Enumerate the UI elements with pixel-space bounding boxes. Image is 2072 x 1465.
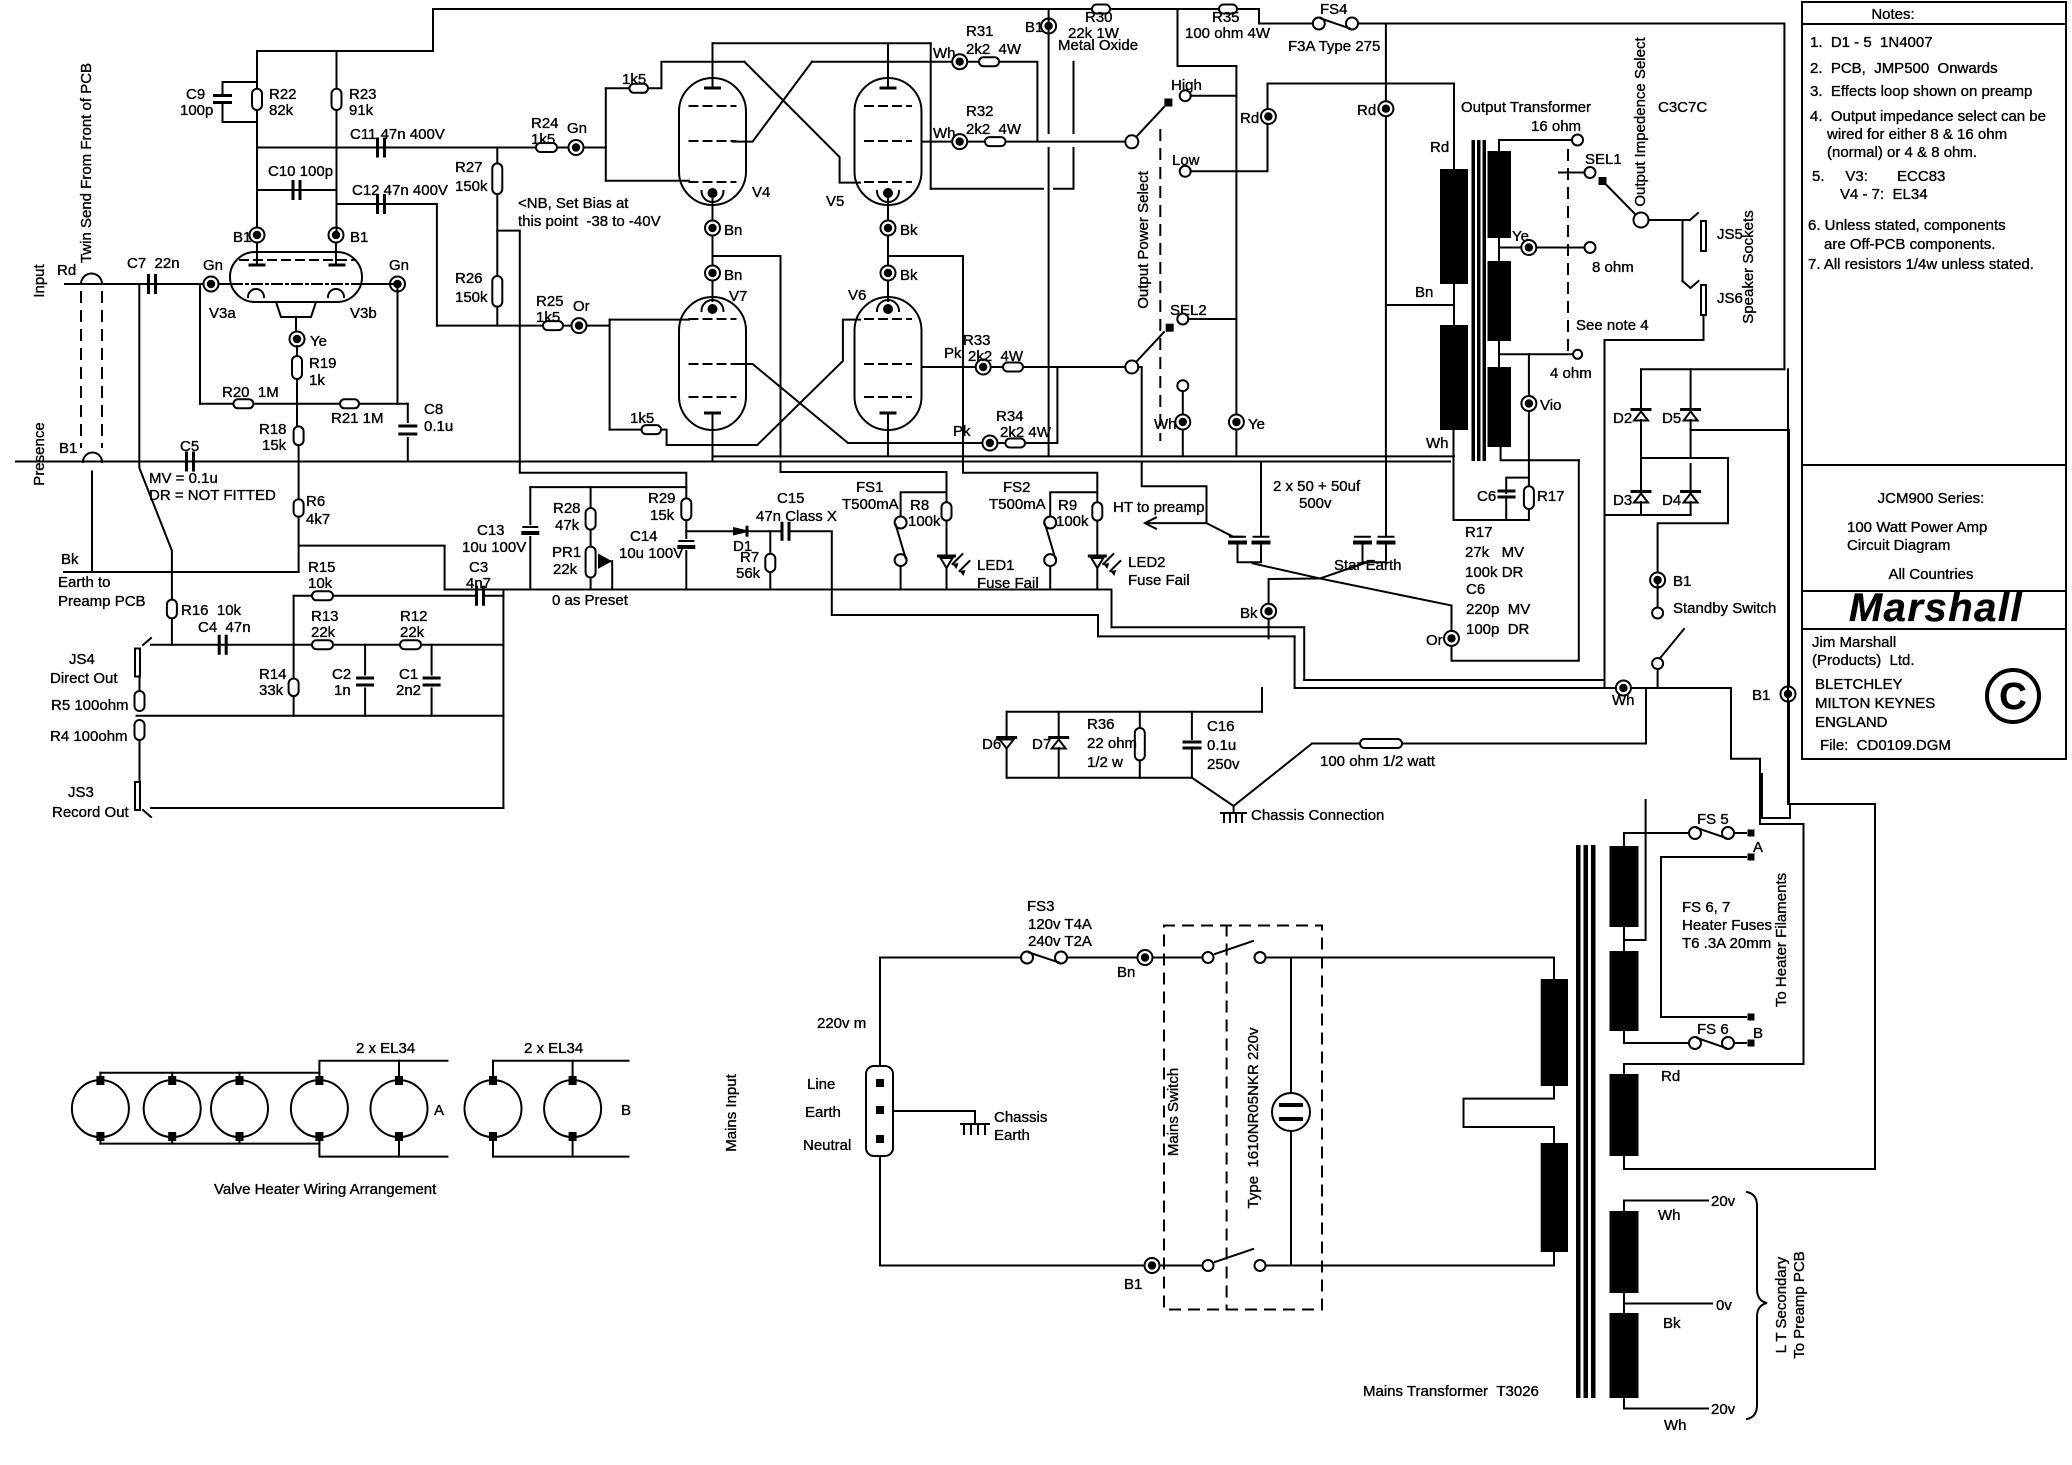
MT secondary heater B [1610,951,1639,1031]
svg-text:C6: C6 [1477,488,1496,505]
MT secondary heater A [1610,846,1639,927]
svg-text:To Preamp PCB: To Preamp PCB [1791,1251,1808,1359]
svg-text:R9: R9 [1058,497,1077,514]
tube V7 (EL34) [679,297,746,430]
wire R36 box bottom [1008,777,1192,779]
wire unused contact down [1182,391,1184,456]
wire lamp top [1290,958,1292,1094]
svg-text:V4: V4 [752,184,770,201]
resistor R7 56k [765,554,775,572]
wire R31 row left [812,61,979,63]
svg-text:V3a: V3a [209,305,236,322]
capacitor C16 0.1u [1184,742,1200,748]
svg-text:8 ohm: 8 ohm [1592,259,1634,276]
svg-text:Wh: Wh [933,125,956,142]
heater bus B bottom [493,1156,629,1158]
resistor R24 1k5 [536,143,557,152]
svg-text:Line: Line [807,1076,835,1093]
title sep 2 [1802,628,2066,630]
wire B1 to standby [1657,580,1659,608]
wire cap pair2 bottoms [1363,545,1387,563]
wire R28-PR1 [590,530,592,547]
wire Low contact to Rd col [1191,84,1454,172]
wire B1 vertical [1048,9,1050,456]
wire V7 g2 stub + diagonal D [733,364,848,443]
mains connector [866,1066,893,1156]
wire C12 down to R25 [436,204,438,326]
svg-text:D6: D6 [982,736,1001,753]
svg-text:2 x 50 + 50uf: 2 x 50 + 50uf [1273,478,1361,495]
node Bk upper [881,221,896,236]
svg-text:JS4: JS4 [69,651,95,668]
svg-text:B1: B1 [1673,573,1691,590]
capacitor C5 [187,453,194,470]
svg-text:Output Transformer: Output Transformer [1461,99,1591,116]
wire FS5 to terminal [1734,832,1746,834]
svg-text:are Off-PCB components.: are Off-PCB components. [1824,236,1995,253]
svg-text:C2: C2 [332,666,351,683]
resistor R29 15k [681,498,691,520]
node Gn V3b [390,277,405,292]
fuse FS4 [1313,18,1325,30]
wire D4 bottom [1690,502,1692,515]
svg-text:Bn: Bn [724,267,742,284]
fuse FS5 [1689,827,1701,839]
svg-text:JS6: JS6 [1717,290,1743,307]
switch common SEL2 [1125,361,1138,374]
copyright symbol [1987,670,2039,722]
wire R29 to C14 [685,520,687,538]
wire R26 bottom [496,307,498,326]
svg-text:R30: R30 [1085,9,1113,26]
svg-text:1k5: 1k5 [536,309,560,326]
node B1 right [329,228,344,243]
wire C4 row [151,644,312,646]
mains pin line [876,1079,884,1087]
wire D6 col bottom [1006,748,1008,778]
svg-text:V4 - 7: EL34: V4 - 7: EL34 [1840,186,1928,203]
svg-text:FS 6: FS 6 [1697,1021,1729,1038]
wire standby to bus [1657,669,1659,688]
svg-text:FS1: FS1 [856,479,884,496]
terminal A1 [1748,830,1755,837]
svg-text:Metal Oxide: Metal Oxide [1058,37,1138,54]
svg-text:R12: R12 [400,608,428,625]
svg-text:C12 47n 400V: C12 47n 400V [352,182,448,199]
svg-text:4. Output impedance select ca: 4. Output impedance select can be [1810,108,2046,125]
wire R23 top lead [336,51,338,89]
svg-text:R32: R32 [966,103,994,120]
MT secondary LT 2 [1610,1313,1639,1398]
svg-text:Gn: Gn [203,257,223,274]
wire R34 right lead up [1025,367,1057,443]
wire 16 ohm tap [1499,140,1572,151]
svg-text:C7 22n: C7 22n [127,255,180,272]
svg-text:C8: C8 [424,401,443,418]
svg-text:R28: R28 [553,500,581,517]
terminal B2 [1748,1040,1755,1047]
svg-text:R22: R22 [269,86,297,103]
wire record out row [151,807,503,809]
wire C15 right down [789,531,832,589]
terminal B1 [1748,1014,1755,1021]
wire C8 bottom [407,438,409,462]
wire cathode branch left pair [713,256,781,456]
wire V3b grid down [397,284,399,404]
svg-text:100 ohm 1/2 watt: 100 ohm 1/2 watt [1320,753,1436,770]
wire R6 bottom to bias bus [299,517,445,590]
resistor 1k5 V7 screen [642,425,662,434]
svg-text:B1: B1 [59,440,77,457]
heater bus B top [493,1060,629,1062]
wire C13 bottom [529,537,531,590]
svg-text:MILTON KEYNES: MILTON KEYNES [1815,695,1935,712]
svg-text:100p DR: 100p DR [1466,621,1530,638]
svg-text:FS3: FS3 [1027,898,1055,915]
node Bn upper [705,221,720,236]
wire cathode to R19 [296,346,298,356]
resistor R23 91k [332,89,342,110]
wire C6R17 bottom rail [1454,519,1529,521]
wire R5 row [137,715,504,717]
svg-text:FS 5: FS 5 [1697,811,1729,828]
OT secondary winding 3 [1488,367,1512,447]
terminal 4 ohm [1573,350,1582,359]
fuse FS2 [1044,517,1056,529]
mains switch dashed box [1164,926,1322,1310]
node B1 left [250,228,265,243]
svg-text:D7: D7 [1032,736,1051,753]
wire R31 right to R32 row [999,62,1037,141]
svg-text:R13: R13 [311,608,339,625]
svg-text:FS2: FS2 [1003,479,1031,496]
svg-text:Bk: Bk [1240,605,1258,622]
svg-text:A: A [1753,839,1763,856]
svg-text:Circuit Diagram: Circuit Diagram [1847,537,1950,554]
wire MT primary link zigzag [1464,1086,1555,1143]
switch arm head 1 [1164,99,1172,107]
svg-text:Ye: Ye [310,333,327,350]
capacitor C15 47n [782,523,789,539]
svg-text:2k2 4W: 2k2 4W [968,348,1024,365]
input jack J1 [81,274,102,285]
tube V3 (ECC83) [230,252,362,302]
wire main bus step down [1111,590,1113,628]
presence jack [83,453,102,463]
svg-text:R8: R8 [910,497,929,514]
svg-text:L T Secondary: L T Secondary [1773,1256,1790,1353]
wire A2 to B1 link [1660,857,1662,1017]
svg-text:20v: 20v [1711,1193,1736,1210]
svg-text:Star Earth: Star Earth [1334,557,1402,574]
wire input [65,283,230,285]
dashed line output power select [1159,130,1161,440]
wire V3b anode lead [335,235,337,265]
node Or [1444,631,1459,646]
wire heater A top [1624,833,1689,846]
svg-text:4 ohm: 4 ohm [1550,365,1592,382]
wire mains bottom [879,1156,881,1266]
resistor R13 22k [312,640,333,649]
resistor R36 22ohm [1135,728,1145,760]
svg-text:F3A Type 275: F3A Type 275 [1288,38,1380,55]
capacitor C6 220p [1499,490,1514,493]
wire 1k5b row [610,429,642,431]
wire R9 to LED2 [1096,521,1098,554]
wire cap pair 1 top [1207,523,1243,537]
svg-text:10u 100V: 10u 100V [619,545,683,562]
svg-text:Fuse Fail: Fuse Fail [1128,572,1190,589]
diode D4 [1682,490,1700,493]
tube V5 (EL34) [855,78,922,205]
capacitor C7 [149,276,156,293]
svg-text:Input: Input [31,263,48,297]
wire R24 to Gn [557,147,606,149]
wire R18 to R6 [298,445,300,499]
wire JS loop right leg [502,590,504,809]
resistor R26 150k [492,276,502,307]
wire R4 to JS3 [139,740,141,782]
wire R22 bottom lead [256,110,258,148]
notes box frame [1802,2,2066,465]
svg-text:Pk: Pk [953,423,971,440]
wire 1k5b right [661,430,757,445]
svg-text:C5: C5 [180,438,199,455]
svg-text:Ye: Ye [1248,416,1265,433]
wire 1k5a row [606,87,630,89]
svg-text:1k5: 1k5 [630,410,654,427]
svg-text:Wh: Wh [1426,435,1449,452]
wire top bus corner [432,9,434,51]
OT primary winding lower [1440,325,1468,430]
svg-text:240v T2A: 240v T2A [1028,933,1092,950]
node Pk R33 [976,360,991,375]
wire R12 right [421,644,503,646]
capacitor C4 47n [219,636,226,653]
wire presence jack sleeve [91,472,93,573]
switch arm SEL1 [1606,185,1635,215]
valve heater socket 1 [72,1080,129,1137]
wire 4 ohm tap [1499,341,1572,367]
wire screen loop [931,62,1074,189]
capacitor C8 0.1u [400,426,416,434]
bus main lower [445,589,1112,591]
node Wh R31 [952,54,967,69]
wire D6 col top [1006,712,1008,737]
wire SEL1 stub [1559,172,1585,174]
mains switch bottom blade [1215,1249,1253,1262]
svg-text:82k: 82k [269,102,294,119]
svg-text:T500mA: T500mA [989,496,1046,513]
node Ye rail [1229,415,1244,430]
svg-text:V3b: V3b [350,305,377,322]
svg-text:220v m: 220v m [817,1015,866,1032]
svg-text:C1: C1 [399,666,418,683]
svg-text:1k: 1k [309,372,325,389]
svg-text:Jim Marshall: Jim Marshall [1812,634,1896,651]
svg-text:Pk: Pk [944,345,962,362]
wire V6 anode lead [887,413,889,456]
wire C10 row [257,189,337,191]
contact SEL2 [1177,314,1188,325]
capacitor filter 1a [1230,536,1245,538]
wire mains top row [880,957,1021,959]
svg-text:File: CD0109.DGM: File: CD0109.DGM [1820,737,1951,754]
resistor R18 15k [294,426,304,445]
resistor 1k5 V4 screen [629,84,648,93]
svg-text:150k: 150k [455,289,488,306]
svg-text:C3C7C: C3C7C [1658,99,1707,116]
svg-text:C13: C13 [477,522,505,539]
svg-text:C14: C14 [630,528,658,545]
capacitor C2 1n [358,678,373,685]
heater stub top 2 [171,1073,173,1076]
svg-text:SEL1: SEL1 [1585,151,1622,168]
wire R15 row left leg [293,596,295,645]
svg-text:Preamp PCB: Preamp PCB [58,593,146,610]
wire MT primary top lead [1553,958,1555,980]
svg-text:Or: Or [573,298,590,315]
svg-text:Neutral: Neutral [803,1137,851,1154]
preset PR1 22k [586,547,596,578]
resistor R4 100ohm [135,720,145,740]
svg-text:(Products) Ltd.: (Products) Ltd. [1812,652,1915,669]
svg-text:R4 100ohm: R4 100ohm [50,728,128,745]
wire V5 cathode down [887,198,889,301]
dashed line output impedance select [1567,150,1569,352]
MT secondary LT 1 [1610,1211,1639,1293]
heater stub bottom 3 [239,1141,241,1144]
svg-text:10u 100V: 10u 100V [462,539,526,556]
svg-text:100 ohm 4W: 100 ohm 4W [1185,25,1271,42]
heater stub B bottom [492,1141,494,1157]
wire D4 top [1690,464,1692,490]
svg-text:V6: V6 [848,287,866,304]
valve heater socket 2 [144,1080,201,1137]
diode D7 [1050,736,1068,739]
svg-text:Record Out: Record Out [52,804,130,821]
wire C2 top [364,645,366,675]
valve heater socket 7 [544,1080,601,1137]
svg-text:1k5: 1k5 [531,131,555,148]
svg-text:3. Effects loop shown on prea: 3. Effects loop shown on preamp [1810,83,2032,100]
svg-text:Vio: Vio [1540,397,1561,414]
svg-text:R6: R6 [306,493,325,510]
svg-text:T500mA: T500mA [842,496,899,513]
svg-text:C4 47n: C4 47n [198,619,251,636]
jack JS3 record out [135,782,140,810]
MT core [1576,845,1581,1398]
wire 8 ohm tap [1499,238,1585,261]
heater bus A bottom [100,1143,319,1145]
wire right loop vertical [1783,24,1785,370]
LED2 fuse fail [1089,555,1105,558]
bus3a earth [1112,626,1305,628]
svg-text:2k2 4W: 2k2 4W [966,121,1022,138]
wire A2 row [1661,856,1746,858]
svg-text:Direct Out: Direct Out [50,670,118,687]
svg-text:MV = 0.1u: MV = 0.1u [149,470,218,487]
wire PR1 bottom [590,578,592,590]
chassis connection earth symbol [1221,813,1246,822]
svg-text:Wh: Wh [1154,416,1177,433]
svg-text:V5: V5 [826,193,844,210]
terminal A2 [1748,854,1755,861]
wire FS1 tap [901,492,947,516]
mains switch dashed divider [1226,926,1228,1310]
svg-text:Rd: Rd [1240,110,1259,127]
resistor R8 100k [942,502,952,520]
brace LT secondary [1747,1192,1767,1419]
node Gn V3a grid [204,277,219,292]
OT core [1472,140,1476,461]
wire R8 to LED1 [946,521,948,554]
svg-text:R21 1M: R21 1M [331,410,384,427]
svg-text:R31: R31 [966,23,994,40]
fuse FS3 [1021,952,1033,964]
wire D2 bottom [1640,420,1642,458]
svg-text:DR = NOT FITTED: DR = NOT FITTED [149,487,276,504]
wire V4 g1 stub [606,180,689,182]
svg-text:Presence: Presence [31,422,48,485]
svg-text:FS 6, 7: FS 6, 7 [1682,899,1730,916]
svg-text:PR1: PR1 [552,544,581,561]
svg-text:2k2 4W: 2k2 4W [966,41,1022,58]
svg-text:To Heater Filaments: To Heater Filaments [1773,873,1790,1007]
svg-text:Bk: Bk [61,551,79,568]
svg-text:See note 4: See note 4 [1576,317,1649,334]
wire C12 row [337,203,437,205]
capacitor C3 4n7 [477,587,484,604]
heater stub bottom 4 [318,1141,320,1144]
svg-text:D4: D4 [1662,492,1681,509]
svg-text:B: B [621,1102,631,1119]
wire R7 bottom [769,572,771,590]
wire twin send down [139,284,172,600]
svg-text:100k DR: 100k DR [1465,564,1524,581]
svg-text:0v: 0v [1716,1297,1732,1314]
mains switch top blade [1215,941,1253,954]
svg-text:7. All resistors 1/4w unless s: 7. All resistors 1/4w unless stated. [1808,256,2034,273]
svg-text:Chassis: Chassis [994,1109,1047,1126]
heater stub top 1 [99,1073,101,1076]
switch arm head SEL2 [1166,324,1174,332]
wiper PR1 [601,561,612,589]
svg-text:15k: 15k [650,507,675,524]
wire LT 20v top [1624,1201,1708,1212]
wire R14 top [293,645,295,679]
svg-text:Output Power Select: Output Power Select [1135,170,1152,308]
svg-text:100k: 100k [908,513,941,530]
bus earth A [713,455,1455,457]
svg-text:R36: R36 [1087,716,1115,733]
wire V3a plate col [256,148,258,228]
wire jack dashed left [80,292,82,447]
jack JS6 speaker socket [1701,285,1706,315]
svg-text:B1: B1 [1752,687,1770,704]
svg-text:T6 .3A 20mm: T6 .3A 20mm [1682,935,1771,952]
wire HT to preamp [1142,462,1207,524]
svg-text:ENGLAND: ENGLAND [1815,714,1888,731]
bus Y2 Wh [1295,687,1731,689]
svg-text:R34: R34 [996,408,1024,425]
svg-text:Rd: Rd [1661,1068,1680,1085]
wire earth to preamp [64,571,299,573]
wire bridge bottom rail [1605,514,1691,516]
svg-text:120v T4A: 120v T4A [1028,916,1092,933]
standby switch top [1652,608,1663,619]
svg-text:2. PCB, JMP500 Onwards: 2. PCB, JMP500 Onwards [1810,60,1998,77]
